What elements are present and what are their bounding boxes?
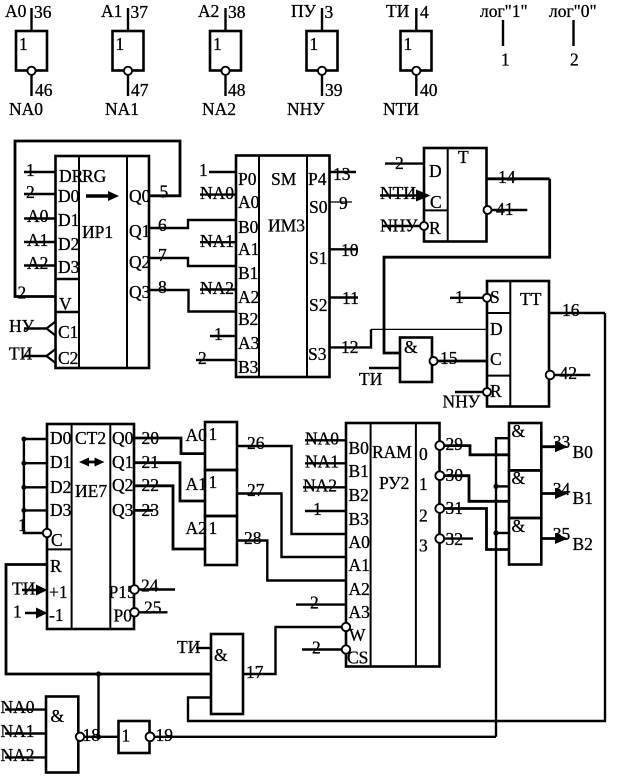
svg-text:B0: B0	[573, 442, 594, 462]
inverter DD1.2 A1	[101, 1, 149, 119]
svg-text:B1: B1	[238, 263, 258, 283]
pin S0 output 9 stub	[330, 193, 353, 213]
svg-text:13: 13	[333, 164, 351, 184]
svg-text:47: 47	[131, 80, 149, 100]
svg-text:лог"0": лог"0"	[549, 1, 597, 21]
flip-flop U3 T body	[424, 147, 487, 242]
svg-text:0: 0	[419, 444, 428, 464]
svg-text:V: V	[59, 294, 72, 314]
pin C2 input, net TI, dynamic wedge	[9, 344, 56, 364]
svg-text:D0: D0	[50, 428, 72, 448]
svg-text:&: &	[512, 516, 526, 536]
svg-text:B2: B2	[573, 534, 593, 554]
wire 26 buffer A0 to RAM A0	[237, 433, 346, 534]
svg-text:ТИ: ТИ	[359, 369, 383, 389]
pin 18 output bubble and wire to buffer 19	[76, 725, 119, 745]
register U1 IR1 body	[56, 156, 151, 368]
svg-text:A2: A2	[349, 579, 370, 599]
svg-text:35: 35	[553, 524, 571, 544]
svg-text:&: &	[214, 645, 228, 665]
svg-text:D2: D2	[50, 477, 71, 497]
svg-text:4: 4	[420, 2, 429, 22]
svg-text:TT: TT	[520, 289, 542, 309]
pin B2 input, net NA2	[303, 475, 346, 495]
svg-text:28: 28	[244, 528, 262, 548]
pin B3 input, net 2	[196, 348, 236, 368]
svg-text:DR: DR	[59, 166, 84, 186]
wire S3 pin12 to TT D	[330, 329, 488, 357]
svg-text:NA0: NA0	[200, 183, 234, 203]
svg-text:48: 48	[228, 80, 246, 100]
svg-text:RG: RG	[82, 166, 107, 186]
svg-text:34: 34	[553, 479, 571, 499]
wire 14 route to AND gate 15	[384, 179, 550, 353]
svg-text:15: 15	[440, 348, 458, 368]
pin D0 input, net 2	[24, 182, 56, 202]
svg-text:A1: A1	[186, 474, 207, 494]
pin R input, net NNU, bubble	[380, 216, 428, 236]
svg-text:NA2: NA2	[202, 99, 236, 119]
svg-text:Q0: Q0	[112, 428, 134, 448]
svg-text:SM: SM	[271, 169, 297, 189]
svg-text:1: 1	[116, 34, 125, 54]
pin W input bubble	[342, 623, 350, 631]
wire feedback Q0 pin5 to V input, label 2	[15, 141, 180, 303]
pin D input, net 2	[385, 153, 424, 173]
pin 15 output to TT C	[430, 348, 488, 368]
svg-text:1: 1	[501, 50, 510, 70]
svg-text:C2: C2	[58, 348, 78, 368]
svg-text:NA0: NA0	[305, 428, 339, 448]
svg-text:1: 1	[13, 602, 22, 622]
svg-text:39: 39	[325, 80, 343, 100]
svg-text:&: &	[51, 706, 65, 726]
pin 16 output wire	[549, 300, 605, 320]
pin +1 input, net TI, arrow	[12, 579, 48, 599]
svg-text:ИЕ7: ИЕ7	[75, 481, 107, 501]
pin B1 input, net NA1	[305, 451, 346, 471]
buffer DD3.1 A0	[186, 422, 238, 470]
svg-text:ТИ: ТИ	[9, 344, 33, 364]
svg-text:2: 2	[419, 506, 428, 526]
pin TI input of gate 17	[177, 637, 211, 657]
pin D3 input, net A2	[24, 253, 56, 273]
svg-text:25: 25	[144, 598, 162, 618]
pin C input, net NTI, edge arrow	[380, 183, 431, 203]
pin S2 output 11 stub	[330, 288, 359, 308]
svg-text:2: 2	[18, 283, 27, 303]
svg-text:D2: D2	[58, 234, 79, 254]
svg-text:2: 2	[312, 638, 321, 658]
svg-text:A2: A2	[198, 1, 219, 21]
pin B0 input, net NA0	[305, 428, 346, 448]
pin 42 inverted output stub	[546, 363, 591, 383]
svg-text:S3: S3	[308, 344, 327, 364]
svg-text:B1: B1	[349, 461, 369, 481]
wire 31 RAM D2 to gate B2	[435, 498, 509, 550]
svg-text:8: 8	[158, 277, 167, 297]
svg-text:лог"1": лог"1"	[480, 1, 528, 21]
svg-text:D3: D3	[58, 257, 80, 277]
AND gate DD2 (15)	[400, 337, 432, 382]
svg-text:NA2: NA2	[1, 745, 35, 765]
svg-text:1: 1	[310, 34, 319, 54]
pin NA2 input of gate 18	[1, 745, 47, 765]
svg-text:A3: A3	[238, 333, 260, 353]
svg-text:A0: A0	[349, 532, 371, 552]
flip-flop U4 TT body	[487, 281, 549, 407]
svg-text:ИР1: ИР1	[82, 222, 113, 242]
svg-text:S1: S1	[309, 248, 327, 268]
buffer DD3.3 A2	[186, 516, 238, 565]
svg-text:2: 2	[26, 182, 35, 202]
inverter DD1.4 PU	[287, 1, 343, 119]
wire Q2 pin7 to SM B1	[149, 245, 236, 266]
svg-text:NНУ: NНУ	[287, 99, 325, 119]
svg-text:НУ: НУ	[9, 316, 35, 336]
pin S1 output 10 stub	[330, 240, 359, 260]
svg-text:D: D	[429, 161, 442, 181]
pin R input, net NNU, bubble	[443, 388, 492, 412]
svg-text:RAM: RAM	[372, 442, 412, 462]
svg-text:P0: P0	[238, 169, 257, 189]
svg-text:S2: S2	[309, 295, 327, 315]
AND gate DD6 (18) NAND of NA0 NA1 NA2	[46, 697, 78, 773]
svg-text:NНУ: NНУ	[443, 392, 481, 412]
svg-text:P0: P0	[114, 606, 133, 626]
svg-text:A2: A2	[27, 253, 48, 273]
svg-text:A0: A0	[238, 192, 260, 212]
svg-text:-1: -1	[49, 605, 64, 625]
svg-text:40: 40	[420, 80, 438, 100]
pin 34 output arrow, net B1	[541, 479, 593, 508]
svg-text:A1: A1	[238, 239, 259, 259]
wire Q1 pin6 to SM B0	[149, 215, 236, 235]
svg-text:5: 5	[160, 182, 169, 202]
pin TI input of gate 15	[359, 368, 400, 389]
wire 17 output to RAM W	[243, 627, 342, 682]
pin NA0 input of gate 18	[1, 697, 47, 717]
pin P4 output 13 stub	[330, 164, 357, 184]
pin A0 input, net NA0	[200, 183, 236, 203]
svg-text:&: &	[512, 421, 526, 441]
svg-text:38: 38	[228, 2, 246, 22]
svg-text:1: 1	[313, 499, 322, 519]
wire strobe net 19 vertical feeding gates	[493, 438, 509, 737]
svg-text:2: 2	[198, 348, 207, 368]
svg-text:46: 46	[35, 80, 53, 100]
svg-text:3: 3	[325, 2, 334, 22]
svg-text:Q3: Q3	[129, 282, 151, 302]
svg-text:NA0: NA0	[1, 697, 35, 717]
svg-text:T: T	[458, 147, 469, 167]
svg-text:33: 33	[553, 432, 571, 452]
svg-text:C: C	[490, 349, 502, 369]
svg-text:R: R	[429, 218, 441, 238]
pin NA1 input of gate 18	[1, 721, 47, 741]
pin CS input, net 2, bubble	[302, 638, 350, 658]
svg-text:A1: A1	[27, 230, 48, 250]
svg-text:C: C	[430, 192, 442, 212]
inverter DD1.1 A0	[5, 1, 53, 119]
AND gate DD4.3 B2	[509, 516, 541, 565]
svg-text:РУ2: РУ2	[379, 473, 409, 493]
wire Q2 pin22 to buffer A2	[134, 475, 205, 549]
svg-text:NA2: NA2	[303, 475, 337, 495]
svg-text:ТИ: ТИ	[386, 1, 410, 21]
svg-text:D3: D3	[50, 500, 72, 520]
wire junction net 18 up to R net	[96, 671, 101, 739]
svg-text:R: R	[50, 556, 62, 576]
wire 16 route to AND gate 17 input	[188, 313, 605, 721]
pin A3 input, net 2	[296, 593, 346, 613]
svg-text:1: 1	[404, 34, 413, 54]
svg-text:1: 1	[419, 474, 428, 494]
svg-text:2: 2	[570, 50, 579, 70]
pin P15 output 24 stub	[130, 576, 175, 596]
svg-text:42: 42	[560, 363, 578, 383]
svg-text:1: 1	[209, 472, 218, 492]
inverter DD1.5 TI	[383, 1, 438, 119]
svg-text:Q3: Q3	[112, 500, 134, 520]
svg-text:A1: A1	[349, 555, 370, 575]
svg-text:&: &	[404, 337, 418, 357]
pin 33 output arrow, net B0	[541, 432, 593, 462]
svg-text:1: 1	[122, 726, 131, 746]
svg-text:27: 27	[247, 480, 265, 500]
wire Q3 pin8 to SM B2	[149, 277, 236, 312]
svg-text:1: 1	[199, 160, 208, 180]
svg-text:NA0: NA0	[9, 99, 43, 119]
svg-text:+1: +1	[49, 582, 68, 602]
inverter DD1.3 A2	[198, 1, 246, 119]
svg-text:CT2: CT2	[75, 428, 106, 448]
svg-text:1: 1	[19, 34, 28, 54]
wire D-input bus tied to C, label 1	[18, 437, 51, 538]
svg-text:2: 2	[310, 593, 319, 613]
svg-text:ПУ: ПУ	[291, 1, 317, 21]
svg-text:A0: A0	[27, 206, 49, 226]
svg-text:ТИ: ТИ	[12, 579, 36, 599]
svg-text:A3: A3	[349, 602, 371, 622]
svg-text:C: C	[51, 530, 63, 550]
wire Q0 pin20 to buffer A0	[134, 428, 205, 454]
svg-text:29: 29	[446, 434, 464, 454]
svg-text:B0: B0	[238, 217, 259, 237]
svg-text:Q2: Q2	[112, 475, 133, 495]
svg-text:NA1: NA1	[1, 721, 35, 741]
wire Q1 pin21 to buffer A1	[134, 452, 205, 501]
svg-text:B3: B3	[349, 509, 370, 529]
svg-text:D: D	[490, 319, 503, 339]
pin A3 input, net 1	[210, 324, 236, 344]
wire 27 buffer A1 to RAM A1	[237, 480, 346, 557]
pin 35 output arrow, net B2	[541, 524, 593, 554]
svg-text:1: 1	[26, 160, 35, 180]
buffer DD7 (1)	[119, 721, 150, 753]
svg-text:17: 17	[246, 662, 264, 682]
svg-text:S0: S0	[309, 197, 328, 217]
svg-text:6: 6	[158, 215, 167, 235]
svg-text:NТИ: NТИ	[380, 183, 416, 203]
svg-text:Q0: Q0	[129, 186, 151, 206]
svg-text:NТИ: NТИ	[383, 99, 419, 119]
svg-text:A1: A1	[101, 1, 122, 21]
svg-text:Q2: Q2	[129, 252, 150, 272]
pin S input, net 1, bubble	[450, 287, 491, 307]
AND gate DD4.1 B0	[509, 421, 541, 470]
svg-text:14: 14	[498, 167, 516, 187]
svg-text:1: 1	[209, 424, 218, 444]
svg-text:B2: B2	[349, 485, 369, 505]
node log0	[549, 1, 597, 70]
svg-text:Q1: Q1	[112, 452, 133, 472]
svg-text:D0: D0	[58, 186, 80, 206]
svg-text:NA2: NA2	[200, 278, 234, 298]
pin A1 input, net NA1	[200, 231, 236, 251]
svg-text:W: W	[349, 625, 366, 645]
svg-text:19: 19	[156, 725, 174, 745]
svg-text:7: 7	[158, 245, 167, 265]
svg-text:NA1: NA1	[105, 99, 139, 119]
node log1	[480, 1, 528, 70]
svg-text:1: 1	[209, 518, 218, 538]
wire 29 RAM D0 to gate B0	[435, 434, 509, 455]
svg-text:1: 1	[214, 324, 223, 344]
wire R input net from gate 18 output	[6, 565, 211, 675]
pin P0 output 25 stub	[130, 598, 167, 618]
buffer DD3.2 A1	[186, 470, 238, 516]
svg-text:D1: D1	[50, 452, 71, 472]
pin D2 input, net A1	[24, 230, 56, 250]
svg-text:37: 37	[131, 2, 149, 22]
pin Q3 output 23 stub	[134, 500, 159, 520]
pin 19 output wire to strobe vertical	[146, 725, 496, 745]
svg-text:A2: A2	[238, 287, 259, 307]
AND gate DD4.2 B1	[509, 468, 541, 518]
svg-text:B1: B1	[573, 488, 593, 508]
wire 28 buffer A2 to RAM A2	[237, 528, 346, 581]
svg-text:36: 36	[34, 2, 52, 22]
svg-text:B0: B0	[349, 438, 370, 458]
adder U2 IM3 body	[236, 156, 330, 378]
pin B3 input, net 1	[305, 499, 346, 519]
svg-text:ИМ3: ИМ3	[268, 216, 305, 236]
pin -1 input, net 1, arrow	[13, 602, 48, 622]
svg-text:9: 9	[339, 193, 348, 213]
svg-text:1: 1	[213, 34, 222, 54]
svg-text:A2: A2	[186, 518, 207, 538]
svg-text:NA1: NA1	[305, 451, 339, 471]
pin 32 output stub	[435, 529, 473, 549]
wire 30 RAM D1 to gate B1	[435, 465, 509, 501]
svg-text:P4: P4	[308, 169, 327, 189]
pin A2 input, net NA2	[200, 278, 236, 298]
pin DR input, net 1	[24, 160, 56, 180]
pin D1 input, net A0	[24, 206, 56, 226]
svg-text:B3: B3	[238, 357, 259, 377]
pin 14 output wire	[487, 167, 550, 187]
svg-text:26: 26	[247, 433, 265, 453]
pin C1 input, net NU, dynamic wedge	[9, 316, 56, 336]
RAM U6 RU2 body	[346, 423, 440, 668]
svg-text:3: 3	[419, 536, 428, 556]
svg-text:16: 16	[562, 300, 580, 320]
AND gate DD5 (17)	[211, 634, 243, 714]
svg-text:B2: B2	[238, 309, 258, 329]
pin P0 input, net 1	[199, 160, 236, 180]
svg-text:Q1: Q1	[129, 221, 150, 241]
svg-text:D1: D1	[58, 210, 79, 230]
svg-text:24: 24	[141, 576, 159, 596]
svg-text:A0: A0	[5, 1, 27, 21]
svg-text:C1: C1	[58, 322, 78, 342]
svg-text:&: &	[512, 468, 526, 488]
pin 41 inverted output stub	[484, 199, 528, 219]
counter U5 IE7 body	[47, 424, 136, 629]
